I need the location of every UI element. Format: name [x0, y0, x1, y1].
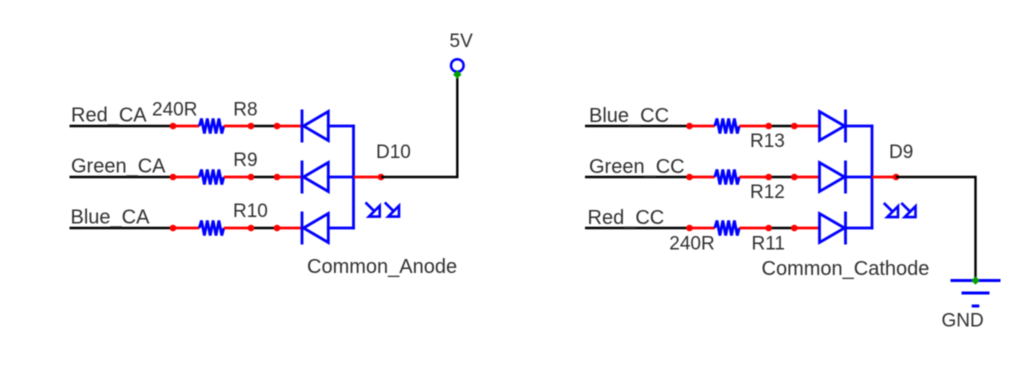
- svg-text:5V: 5V: [450, 31, 474, 52]
- svg-text:Common_Cathode: Common_Cathode: [762, 258, 930, 280]
- svg-text:R12: R12: [750, 182, 785, 203]
- svg-text:Blue_CC: Blue_CC: [589, 105, 669, 127]
- svg-text:R13: R13: [750, 131, 785, 152]
- svg-text:Red_CA: Red_CA: [71, 104, 147, 126]
- svg-text:D9: D9: [889, 142, 913, 163]
- svg-text:240R: 240R: [152, 99, 197, 120]
- svg-text:GND: GND: [942, 311, 984, 332]
- svg-text:Green_CC: Green_CC: [589, 156, 685, 178]
- svg-text:R9: R9: [233, 150, 257, 171]
- svg-text:R10: R10: [233, 201, 268, 222]
- svg-text:240R: 240R: [669, 234, 714, 255]
- svg-text:R11: R11: [752, 234, 785, 255]
- svg-text:D10: D10: [376, 142, 411, 163]
- svg-text:Common_Anode: Common_Anode: [307, 256, 457, 278]
- svg-text:Blue_CA: Blue_CA: [71, 206, 151, 228]
- svg-text:Green_CA: Green_CA: [71, 155, 166, 177]
- svg-text:Red_CC: Red_CC: [588, 207, 665, 229]
- svg-text:R8: R8: [233, 99, 257, 120]
